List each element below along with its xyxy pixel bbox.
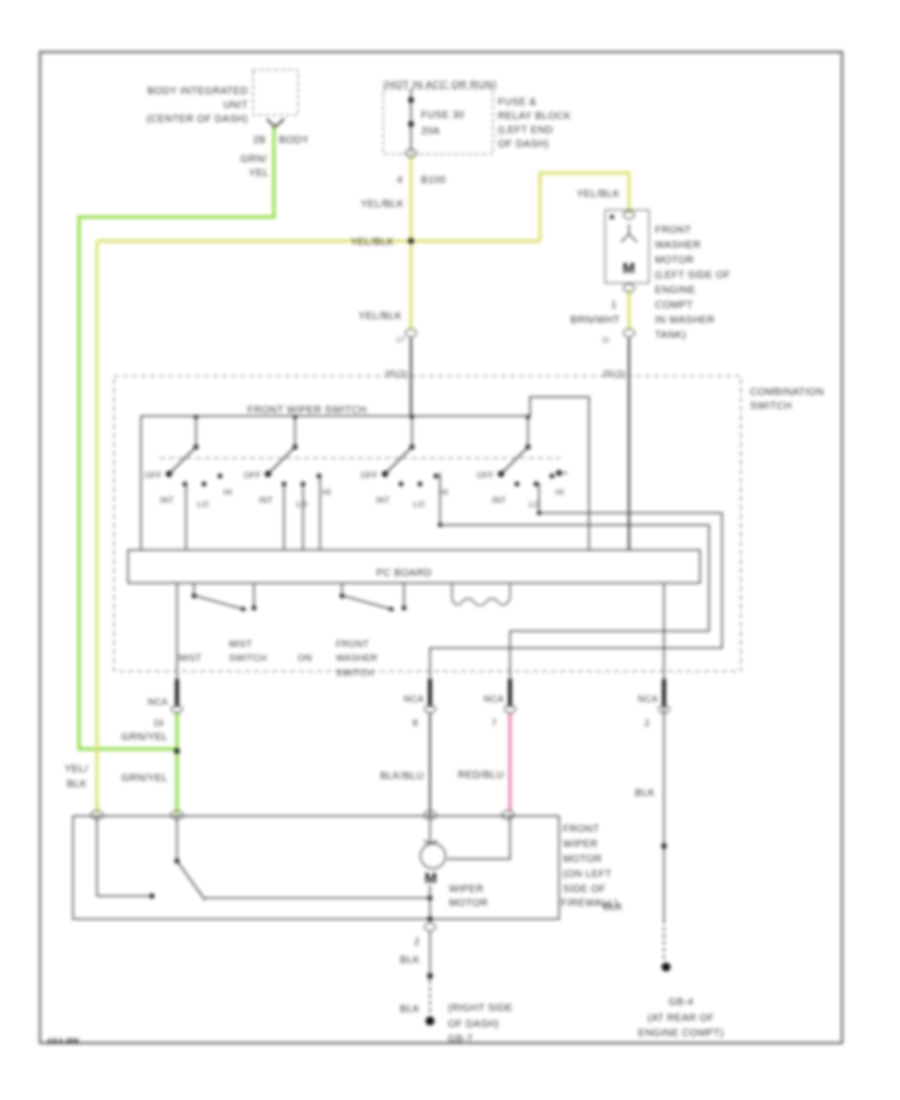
svg-text:2B: 2B [253, 135, 266, 146]
svg-text:TANK): TANK) [655, 330, 686, 341]
svg-text:FRONT: FRONT [336, 639, 369, 649]
svg-text:SWITCH: SWITCH [750, 401, 792, 412]
svg-text:1: 1 [611, 300, 617, 311]
svg-text:YEL/BLK: YEL/BLK [351, 237, 394, 248]
svg-text:INT: INT [492, 496, 506, 505]
svg-text:2F(2): 2F(2) [602, 369, 626, 379]
svg-text:GRN/YEL: GRN/YEL [121, 773, 168, 784]
svg-text:YEL: YEL [249, 168, 269, 179]
svg-text:4A4-WK: 4A4-WK [47, 1037, 80, 1046]
svg-text:UNIT: UNIT [223, 100, 248, 111]
svg-text:(LEFT SIDE OF: (LEFT SIDE OF [655, 270, 731, 281]
svg-text:OF DASH): OF DASH) [448, 1019, 499, 1030]
svg-text:NCA: NCA [484, 694, 504, 704]
svg-text:M: M [623, 260, 636, 277]
svg-text:MOTOR: MOTOR [655, 255, 694, 266]
svg-text:HI: HI [323, 488, 332, 497]
svg-text:FRONT: FRONT [563, 824, 599, 835]
svg-text:INT: INT [160, 496, 174, 505]
svg-text:OF DASH): OF DASH) [498, 139, 549, 150]
svg-text:LO: LO [413, 500, 424, 509]
svg-text:GRN/YEL: GRN/YEL [121, 732, 168, 743]
svg-text:4: 4 [397, 175, 403, 186]
svg-text:BLK: BLK [635, 788, 655, 799]
svg-text:WIPER: WIPER [563, 839, 598, 850]
svg-text:ENGINE COMPT): ENGINE COMPT) [638, 1028, 724, 1039]
svg-text:ON: ON [298, 653, 312, 663]
svg-text:OFF: OFF [244, 471, 261, 480]
svg-text:WASHER: WASHER [655, 240, 701, 251]
svg-text:GB-4: GB-4 [669, 997, 694, 1008]
svg-text:SIDE OF: SIDE OF [563, 884, 606, 895]
svg-text:20A: 20A [421, 126, 440, 137]
svg-text:BLK: BLK [400, 955, 420, 966]
svg-text:BODY: BODY [279, 135, 309, 146]
svg-text:BLK: BLK [400, 1004, 420, 1015]
svg-text:HI: HI [556, 488, 565, 497]
svg-text:WASHER: WASHER [336, 653, 378, 663]
svg-text:BRN/WHT: BRN/WHT [571, 315, 620, 326]
svg-text:B100: B100 [421, 175, 446, 186]
svg-text:OFF: OFF [477, 471, 494, 480]
svg-text:INT: INT [259, 496, 273, 505]
svg-text:HI: HI [440, 488, 449, 497]
svg-text:GRN/: GRN/ [240, 154, 267, 165]
svg-text:MOTOR: MOTOR [449, 898, 488, 909]
svg-text:COMBINATION: COMBINATION [750, 387, 824, 398]
svg-text:(AT REAR OF: (AT REAR OF [648, 1013, 715, 1024]
svg-text:OFF: OFF [361, 471, 378, 480]
svg-text:PC BOARD: PC BOARD [376, 568, 431, 579]
svg-text:COMPT: COMPT [655, 300, 693, 311]
svg-text:MIST: MIST [229, 639, 252, 649]
svg-text:BLK: BLK [67, 779, 87, 790]
svg-text:2: 2 [645, 718, 650, 728]
svg-text:(RIGHT SIDE: (RIGHT SIDE [448, 1003, 513, 1014]
svg-text:YEL/BLK: YEL/BLK [577, 189, 620, 200]
svg-text:LO: LO [296, 500, 307, 509]
svg-text:LO: LO [197, 500, 208, 509]
svg-text:7: 7 [492, 718, 497, 728]
svg-text:MIST: MIST [178, 653, 201, 663]
svg-text:IN WASHER: IN WASHER [655, 315, 715, 326]
svg-text:SWITCH: SWITCH [229, 653, 267, 663]
svg-text:BODY INTEGRATED: BODY INTEGRATED [147, 86, 248, 97]
svg-text:ENGINE: ENGINE [655, 285, 696, 296]
svg-text:OFF: OFF [145, 471, 162, 480]
svg-text:INT: INT [376, 496, 390, 505]
svg-text:NCA: NCA [148, 697, 168, 707]
svg-text:8: 8 [413, 718, 418, 728]
svg-text:(LEFT END: (LEFT END [498, 125, 553, 136]
svg-text:RED/BLU: RED/BLU [458, 770, 504, 781]
svg-text:FUSE 30: FUSE 30 [421, 110, 464, 121]
svg-text:17: 17 [396, 337, 405, 344]
svg-text:NCA: NCA [638, 694, 658, 704]
svg-text:16: 16 [153, 718, 164, 728]
svg-text:YEL/BLK: YEL/BLK [359, 311, 402, 322]
svg-text:M: M [425, 870, 438, 887]
svg-text:MOTOR: MOTOR [563, 854, 602, 865]
svg-text:FUSE &: FUSE & [498, 97, 537, 108]
svg-text:NCA: NCA [404, 694, 424, 704]
svg-text:BLK: BLK [603, 902, 623, 913]
svg-text:11: 11 [602, 337, 610, 344]
svg-text:FRONT: FRONT [655, 225, 691, 236]
svg-text:SWITCH: SWITCH [336, 668, 374, 678]
svg-text:FRONT WIPER SWITCH: FRONT WIPER SWITCH [247, 405, 366, 416]
svg-text:YEL/: YEL/ [65, 764, 88, 775]
svg-text:GB-7: GB-7 [448, 1034, 473, 1045]
svg-text:(ON LEFT: (ON LEFT [563, 869, 612, 880]
svg-text:BLK/BLU: BLK/BLU [380, 771, 424, 782]
svg-text:WIPER: WIPER [449, 884, 484, 895]
svg-text:YEL/BLK: YEL/BLK [361, 199, 404, 210]
svg-text:(CENTER OF DASH): (CENTER OF DASH) [147, 114, 248, 125]
svg-text:RELAY BLOCK: RELAY BLOCK [498, 111, 571, 122]
svg-text:2: 2 [414, 937, 420, 948]
svg-text:HI: HI [224, 488, 233, 497]
svg-text:2F(2): 2F(2) [384, 369, 408, 379]
